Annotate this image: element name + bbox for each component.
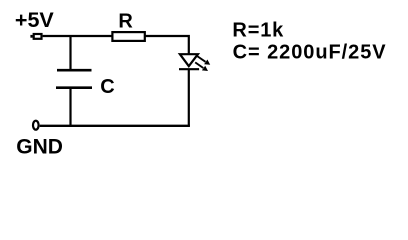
svg-text:C: C <box>100 76 114 98</box>
svg-text:+5V: +5V <box>15 8 55 32</box>
svg-text:C= 2200uF/25V: C= 2200uF/25V <box>233 42 387 64</box>
svg-text:GND: GND <box>16 136 63 157</box>
svg-text:R: R <box>118 10 133 32</box>
svg-text:R=1k: R=1k <box>232 19 284 41</box>
